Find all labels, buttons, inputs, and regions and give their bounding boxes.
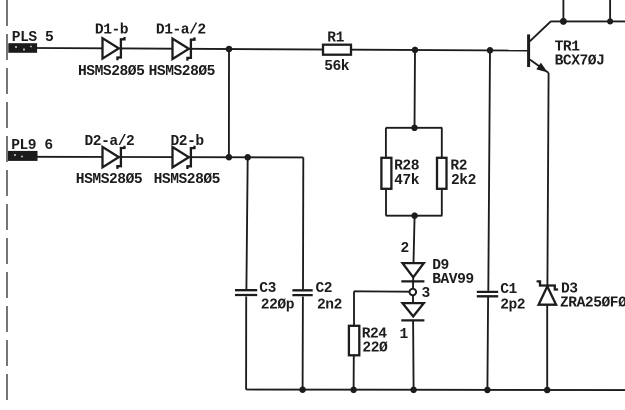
svg-text:PL9 6: PL9 6 <box>11 138 53 154</box>
svg-text:2p2: 2p2 <box>500 298 525 314</box>
svg-text:C2: C2 <box>316 281 333 297</box>
svg-text:56k: 56k <box>324 59 350 75</box>
svg-text:2: 2 <box>401 241 409 257</box>
svg-text:22Ø: 22Ø <box>362 341 388 357</box>
svg-text:D2-a/2: D2-a/2 <box>85 134 135 150</box>
svg-text:47k: 47k <box>394 173 420 189</box>
svg-text:BAV99: BAV99 <box>432 272 474 288</box>
svg-text:ZRA25ØFØ: ZRA25ØFØ <box>560 295 625 311</box>
svg-text:C3: C3 <box>259 281 276 297</box>
svg-text:D1-b: D1-b <box>95 22 129 38</box>
svg-text:D1-a/2: D1-a/2 <box>156 23 206 39</box>
svg-text:HSMS28Ø5: HSMS28Ø5 <box>154 172 220 188</box>
svg-text:HSMS28Ø5: HSMS28Ø5 <box>78 64 144 80</box>
svg-text:BCX7ØJ: BCX7ØJ <box>555 53 605 69</box>
svg-text:HSMS28Ø5: HSMS28Ø5 <box>149 64 215 80</box>
svg-text:PLS 5: PLS 5 <box>12 30 54 46</box>
svg-text:C1: C1 <box>500 282 517 298</box>
svg-text:2k2: 2k2 <box>451 173 476 189</box>
svg-text:2n2: 2n2 <box>317 297 342 313</box>
svg-text:R1: R1 <box>327 31 344 47</box>
svg-text:22Øp: 22Øp <box>261 297 295 313</box>
svg-text:3: 3 <box>422 286 431 302</box>
svg-text:1: 1 <box>400 327 409 343</box>
svg-text:D2-b: D2-b <box>171 134 205 150</box>
svg-text:HSMS28Ø5: HSMS28Ø5 <box>76 172 142 188</box>
